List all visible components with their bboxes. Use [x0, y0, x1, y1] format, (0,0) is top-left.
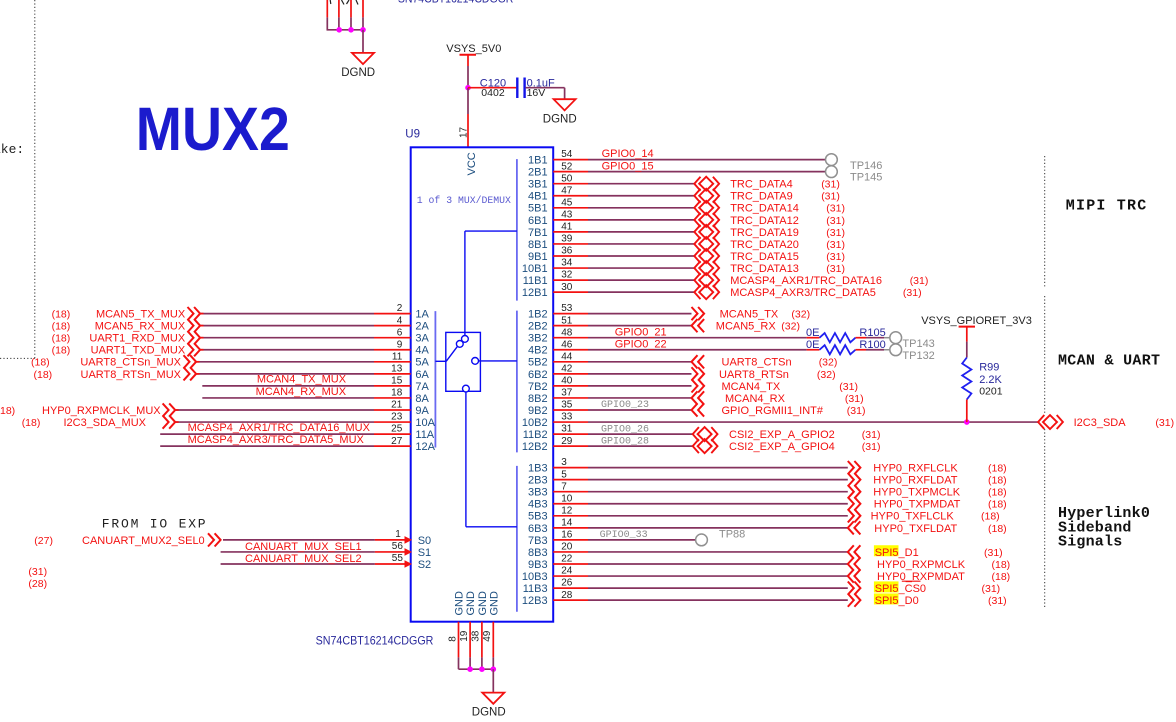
wire TRC_DATA13 — [588, 267, 694, 269]
svg-text:(18): (18) — [988, 499, 1007, 511]
svg-text:S0: S0 — [418, 535, 431, 547]
inner bus line B2 group — [516, 311, 518, 453]
svg-text:(18): (18) — [988, 475, 1007, 487]
svg-text:TP146: TP146 — [850, 160, 882, 172]
svg-text:9B3: 9B3 — [528, 559, 548, 571]
off-page connector MCAN4_RX — [692, 391, 705, 404]
svg-text:32: 32 — [561, 270, 573, 281]
wire MCASP4_AXR1/TRC_DATA16_MUX — [160, 433, 374, 435]
wire GND bus horizontal — [459, 668, 494, 670]
wire SPI5_CS0 — [588, 587, 848, 589]
svg-text:4B3: 4B3 — [528, 499, 548, 511]
svg-text:4A: 4A — [415, 345, 429, 357]
wire TRC_DATA20 — [588, 243, 694, 245]
wire GND pin 19 — [469, 622, 471, 658]
svg-text:2A: 2A — [415, 321, 429, 333]
off-page connector MCAN5_RX — [692, 319, 705, 332]
svg-text:UART8_RTSn_MUX: UART8_RTSn_MUX — [81, 369, 182, 381]
svg-text:GND: GND — [465, 591, 477, 616]
off-page connector MCAN5_TX — [692, 307, 705, 320]
svg-text:20: 20 — [561, 542, 573, 553]
svg-text:11A: 11A — [415, 429, 434, 441]
wire GPIO0_33 to TP88 — [588, 539, 696, 541]
off-page connector HYP0_RXFLDAT — [848, 473, 861, 486]
wire MCASP4_AXR3/TRC_DATA5 — [588, 291, 694, 293]
svg-text:(18): (18) — [34, 369, 53, 381]
svg-text:1B3: 1B3 — [528, 463, 548, 475]
off-page connector CANUART_MUX2_SEL0 — [208, 533, 221, 546]
mux switch lever — [446, 347, 457, 362]
wire top-left vertical 4 — [362, 0, 364, 17]
off-page connector HYP0_TXPMCLK — [848, 485, 861, 498]
svg-text:25: 25 — [391, 424, 403, 435]
svg-text:0201: 0201 — [979, 386, 1003, 398]
svg-text:10B2: 10B2 — [522, 417, 548, 429]
svg-text:DGND: DGND — [543, 113, 577, 125]
svg-text:18): 18) — [0, 405, 15, 417]
svg-text:56: 56 — [392, 541, 404, 552]
svg-text:7: 7 — [561, 481, 567, 492]
svg-text:42: 42 — [561, 363, 573, 374]
wire top-left vertical 2 — [338, 0, 340, 17]
svg-text:5A: 5A — [415, 357, 429, 369]
svg-text:7B1: 7B1 — [528, 227, 548, 239]
svg-text:(18): (18) — [988, 523, 1007, 535]
svg-text:(31): (31) — [821, 191, 840, 203]
svg-text:11: 11 — [392, 351, 403, 362]
wire MCAN4_TX — [588, 385, 692, 387]
pin arrow S0 — [405, 536, 413, 544]
wire UART8_CTSn_MUX — [197, 361, 375, 363]
svg-text:22: 22 — [561, 554, 573, 565]
svg-text:FROM IO EXP: FROM IO EXP — [102, 517, 208, 532]
wire UART8_RTSn — [588, 373, 692, 375]
svg-text:6B1: 6B1 — [528, 215, 548, 227]
svg-text:MCAN4_RX_MUX: MCAN4_RX_MUX — [256, 386, 347, 398]
svg-text:39: 39 — [561, 234, 573, 245]
wire stub 1A — [374, 313, 411, 315]
svg-text:I2C3_SDA: I2C3_SDA — [1074, 417, 1127, 429]
svg-text:MCAN5_TX: MCAN5_TX — [720, 309, 779, 321]
wire CANUART_MUX_SEL2 — [221, 563, 375, 565]
svg-text:8: 8 — [447, 636, 458, 642]
svg-text:(31): (31) — [826, 263, 845, 275]
svg-text:(31): (31) — [984, 547, 1003, 559]
off-page connector SPI5_D1 — [848, 545, 861, 558]
svg-text:(31): (31) — [982, 583, 1001, 595]
wire I2C3_SDA long — [588, 421, 1038, 423]
section separator dotted line Hyperlink0 — [1044, 429, 1046, 607]
svg-text:UART1_TXD_MUX: UART1_TXD_MUX — [91, 345, 186, 357]
wire HYP0_TXPMDAT — [588, 503, 848, 505]
svg-text:2B3: 2B3 — [528, 475, 548, 487]
svg-text:8A: 8A — [415, 393, 429, 405]
off-page connector HYP0_TXPMDAT — [848, 497, 861, 510]
svg-text:51: 51 — [561, 315, 573, 326]
inner bus line B1 group — [516, 159, 518, 301]
ground DGND top-left — [352, 53, 374, 64]
svg-text:24: 24 — [561, 566, 573, 577]
pin arrow S1 — [405, 548, 413, 556]
wire HYP0_TXFLDAT — [588, 527, 848, 529]
svg-text:(18): (18) — [52, 321, 71, 333]
svg-text:6B2: 6B2 — [528, 369, 548, 381]
svg-text:(32): (32) — [819, 357, 838, 369]
svg-text:5B1: 5B1 — [528, 203, 548, 215]
wire TRC_DATA4 — [588, 183, 694, 185]
svg-text:8B1: 8B1 — [528, 239, 548, 251]
off-page connector HYP0_RXPMCLK_MUX — [163, 403, 176, 416]
switch wire to B3 bus — [465, 392, 467, 527]
wire HYP0_RXPMCLK — [588, 563, 848, 565]
wire UART8_RTSn_MUX — [197, 373, 375, 375]
svg-text:45: 45 — [561, 197, 573, 208]
svg-text:1B2: 1B2 — [528, 309, 548, 321]
svg-text:UART1_RXD_MUX: UART1_RXD_MUX — [89, 333, 185, 345]
svg-text:GPIO0_26: GPIO0_26 — [601, 424, 649, 435]
svg-text:27: 27 — [391, 436, 403, 447]
svg-text:GPIO0_14: GPIO0_14 — [602, 148, 654, 160]
svg-text:GPIO0_15: GPIO0_15 — [602, 160, 654, 172]
off-page connector CSI2_EXP_A_GPIO2 — [693, 427, 718, 441]
wire HYP0_RXPMDAT — [588, 575, 848, 577]
svg-text:10A: 10A — [415, 417, 435, 429]
svg-text:(32): (32) — [817, 369, 836, 381]
wire stub 12A — [374, 445, 411, 447]
svg-text:11B2: 11B2 — [523, 429, 548, 441]
svg-text:GPIO0_33: GPIO0_33 — [600, 530, 648, 541]
off-page connector MCAN5_TX_MUX — [188, 307, 201, 320]
wire stub 4A — [374, 349, 411, 351]
svg-text:UART8_CTSn: UART8_CTSn — [722, 357, 792, 369]
ground DGND bottom — [482, 693, 504, 704]
off-page connector TRC_DATA20 — [694, 237, 719, 251]
junction dots GND bus — [467, 666, 473, 672]
svg-text:Signals: Signals — [1058, 534, 1122, 551]
switch wire to B2 bus — [479, 360, 517, 362]
wire GPIO0_15 to TP145 — [588, 171, 825, 173]
svg-text:2.2K: 2.2K — [979, 374, 1002, 386]
svg-text:TRC_DATA13: TRC_DATA13 — [730, 263, 799, 275]
svg-text:GPIO0_23: GPIO0_23 — [601, 400, 649, 411]
off-page connector UART1_TXD_MUX — [188, 343, 201, 356]
net label SPI5_D1 (31) — [874, 545, 899, 556]
wire I2C3_SDA_MUX — [176, 421, 374, 423]
svg-text:6B3: 6B3 — [528, 523, 548, 535]
svg-text:9B1: 9B1 — [528, 251, 548, 263]
svg-text:10: 10 — [561, 493, 573, 504]
svg-text:11B1: 11B1 — [523, 275, 548, 287]
svg-text:CANUART_MUX_SEL1: CANUART_MUX_SEL1 — [245, 541, 362, 553]
svg-text:19: 19 — [459, 630, 470, 642]
off-page connector I2C3_SDA — [1038, 415, 1063, 429]
svg-text:(31): (31) — [826, 239, 845, 251]
svg-text:(31): (31) — [826, 203, 845, 215]
wire TRC_DATA12 — [588, 219, 694, 221]
svg-text:(31): (31) — [862, 441, 881, 453]
svg-text:50: 50 — [561, 173, 573, 184]
svg-text:VSYS_5V0: VSYS_5V0 — [446, 43, 501, 55]
svg-text:HYP0_TXFLDAT: HYP0_TXFLDAT — [874, 523, 957, 535]
svg-text:GND: GND — [477, 591, 489, 616]
svg-text:43: 43 — [561, 209, 573, 220]
wire HYP0_RXPMCLK_MUX — [176, 409, 374, 411]
test point TP143 — [890, 332, 902, 344]
wire HYP0_RXFLDAT — [588, 479, 848, 481]
wire GND pin 8 — [458, 622, 460, 658]
svg-text:(18): (18) — [52, 333, 71, 345]
svg-text:2: 2 — [397, 303, 403, 314]
wire TRC_DATA14 — [588, 207, 694, 209]
svg-text:SN74CBT16214CDGGR: SN74CBT16214CDGGR — [398, 0, 514, 6]
svg-text:12: 12 — [561, 505, 573, 516]
svg-text:SPI5_D0: SPI5_D0 — [875, 595, 919, 607]
wire CANUART_MUX2_SEL0 — [223, 539, 375, 541]
off-page connector TRC_DATA4 — [694, 177, 719, 191]
svg-text:9A: 9A — [415, 405, 429, 417]
wire capacitor to DGND — [526, 87, 565, 89]
svg-text:0E: 0E — [806, 339, 819, 351]
svg-text:(31): (31) — [845, 393, 864, 405]
svg-text:SN74CBT16214CDGGR: SN74CBT16214CDGGR — [316, 633, 434, 647]
svg-text:30: 30 — [561, 282, 573, 293]
wire TRC_DATA15 — [588, 255, 694, 257]
svg-text:UART8_CTSn_MUX: UART8_CTSn_MUX — [80, 357, 181, 369]
sheet border dotted horizontal line — [0, 357, 35, 359]
svg-text:(31): (31) — [910, 275, 929, 287]
wire resistor R105 to TP143 — [856, 337, 867, 339]
test point TP88 — [696, 534, 708, 546]
svg-text:TRC_DATA14: TRC_DATA14 — [730, 203, 799, 215]
svg-text:TRC_DATA12: TRC_DATA12 — [730, 215, 799, 227]
svg-text:CANUART_MUX2_SEL0: CANUART_MUX2_SEL0 — [82, 535, 205, 547]
wire MCAN4_RX_MUX — [202, 397, 374, 399]
svg-text:49: 49 — [482, 630, 493, 642]
wire junction to VCC pin 17 — [467, 88, 469, 114]
wire stub 7A — [374, 385, 411, 387]
wire GPIO_RGMII1_INT# — [588, 409, 692, 411]
svg-text:26: 26 — [561, 578, 573, 589]
svg-text:SPI5_CS0: SPI5_CS0 — [875, 583, 926, 595]
svg-text:4B1: 4B1 — [528, 191, 548, 203]
wire stub 5A — [374, 361, 411, 363]
svg-text:3B2: 3B2 — [528, 333, 548, 345]
off-page connector CSI2_EXP_A_GPIO4 — [693, 439, 718, 453]
svg-text:MCAN5_TX_MUX: MCAN5_TX_MUX — [96, 309, 186, 321]
mux switch contact circles — [456, 341, 463, 348]
test point TP132 — [890, 344, 902, 356]
svg-text:(31): (31) — [826, 215, 845, 227]
svg-text:41: 41 — [561, 222, 573, 233]
wire stub 11A — [374, 433, 411, 435]
svg-text:DGND: DGND — [341, 67, 375, 79]
wire top-left vertical 1 — [326, 0, 328, 17]
wire R99 to I2C3_SDA net — [966, 400, 968, 423]
svg-text:2B2: 2B2 — [528, 321, 548, 333]
off-page connector HYP0_TXFLDAT — [848, 521, 861, 534]
svg-text:GPIO0_21: GPIO0_21 — [615, 326, 667, 338]
wire HYP0_TXFLCLK — [588, 515, 848, 517]
section separator dotted line MCAN UART — [1044, 296, 1046, 414]
svg-text:MUX2: MUX2 — [136, 95, 290, 163]
wire VSYS_GPIORET_3V3 to R99 — [966, 327, 968, 342]
svg-text:R99: R99 — [979, 361, 999, 373]
svg-text:38: 38 — [471, 630, 482, 642]
wire VSYS_5V0 down to junction — [467, 55, 469, 66]
sheet border dotted vertical line — [34, 0, 36, 359]
svg-text:1B1: 1B1 — [528, 155, 548, 167]
svg-text:MCAN4_TX: MCAN4_TX — [722, 381, 781, 393]
svg-text:TP145: TP145 — [850, 172, 882, 184]
svg-text:TRC_DATA15: TRC_DATA15 — [730, 251, 799, 263]
svg-text:I2C3_SDA_MUX: I2C3_SDA_MUX — [63, 417, 146, 429]
svg-text:MCAN4_TX_MUX: MCAN4_TX_MUX — [257, 374, 347, 386]
off-page connector HYP0_TXFLCLK — [848, 509, 861, 522]
svg-text:7B2: 7B2 — [528, 381, 548, 393]
off-page connector UART8_CTSn — [692, 355, 705, 368]
svg-text:52: 52 — [561, 161, 573, 172]
svg-text:4B2: 4B2 — [528, 345, 548, 357]
svg-text:MIPI TRC: MIPI TRC — [1066, 198, 1148, 215]
svg-text:(31): (31) — [988, 595, 1007, 607]
op IC U9 SN74CBT16214CDGGR body — [411, 147, 554, 621]
svg-text:15: 15 — [391, 376, 403, 387]
svg-text:(31): (31) — [847, 405, 866, 417]
wire junction to capacitor C120 — [468, 87, 516, 89]
svg-text:17: 17 — [458, 126, 469, 138]
svg-text:5B3: 5B3 — [528, 511, 548, 523]
svg-text:HYP0_RXFLCLK: HYP0_RXFLCLK — [873, 463, 958, 475]
junction R99 / I2C3_SDA — [964, 419, 970, 425]
wire MCASP4_AXR3/TRC_DATA5_MUX — [160, 445, 374, 447]
svg-text:(31): (31) — [821, 179, 840, 191]
svg-text:3B1: 3B1 — [528, 179, 548, 191]
svg-text:(18): (18) — [992, 559, 1011, 571]
wire GPIO0_22 to resistor R100 — [588, 349, 807, 351]
svg-text:CSI2_EXP_A_GPIO2: CSI2_EXP_A_GPIO2 — [729, 429, 835, 441]
off-page connector UART1_RXD_MUX — [188, 331, 201, 344]
svg-text:3B3: 3B3 — [528, 487, 548, 499]
svg-text:1 of 3 MUX/DEMUX: 1 of 3 MUX/DEMUX — [417, 195, 511, 206]
svg-text:23: 23 — [391, 412, 403, 423]
svg-text:37: 37 — [561, 388, 573, 399]
off-page connector SPI5_CS0 — [848, 582, 861, 595]
svg-text:16V: 16V — [527, 87, 546, 99]
svg-text:GPIO0_22: GPIO0_22 — [615, 338, 667, 350]
wire TRC_DATA19 — [588, 231, 694, 233]
svg-text:(32): (32) — [791, 309, 810, 321]
junction dots top-left — [336, 27, 342, 33]
svg-text:MCAN4_RX: MCAN4_RX — [725, 393, 786, 405]
wire SPI5_D1 — [588, 551, 848, 553]
off-page connector UART8_RTSn — [692, 367, 705, 380]
mux switch common stub from A bus — [435, 360, 445, 362]
svg-text:HYP0_TXPMCLK: HYP0_TXPMCLK — [873, 487, 960, 499]
resistor R100 0E — [820, 345, 856, 354]
svg-text:8B3: 8B3 — [528, 547, 548, 559]
svg-text:28: 28 — [561, 590, 573, 601]
ground DGND at C120 — [554, 99, 576, 110]
svg-text:31: 31 — [561, 424, 573, 435]
section separator dotted line MIPI TRC — [1044, 156, 1046, 287]
off-page connector TRC_DATA9 — [694, 189, 719, 203]
svg-text:HYP0_RXPMCLK_MUX: HYP0_RXPMCLK_MUX — [42, 405, 161, 417]
wire stub 9A — [374, 409, 411, 411]
svg-text:(31): (31) — [862, 429, 881, 441]
wire UART1_TXD_MUX — [201, 349, 375, 351]
svg-text:5B2: 5B2 — [528, 357, 548, 369]
wire MCASP4_AXR1/TRC_DATA16 — [588, 279, 694, 281]
wire resistor R100 to TP132 — [856, 349, 867, 351]
svg-text:MCAN5_RX_MUX: MCAN5_RX_MUX — [95, 321, 186, 333]
svg-text:(18): (18) — [981, 511, 1000, 523]
wire stub 6A — [374, 373, 411, 375]
svg-text:21: 21 — [391, 400, 403, 411]
wire GPIO0_21 to resistor R105 — [588, 337, 807, 339]
svg-text:48: 48 — [561, 327, 573, 338]
wire GND pin 38 — [481, 622, 483, 658]
svg-text:4: 4 — [397, 315, 403, 326]
svg-text:16: 16 — [561, 530, 573, 541]
svg-text:1A: 1A — [415, 309, 429, 321]
svg-text:(31): (31) — [826, 251, 845, 263]
wire to DGND top-left — [362, 30, 364, 53]
svg-text:TP143: TP143 — [902, 338, 934, 350]
resistor R105 0E — [820, 333, 856, 342]
wire CANUART_MUX_SEL1 — [221, 551, 375, 553]
wire HYP0_RXFLCLK — [588, 467, 848, 469]
svg-text:(31): (31) — [903, 287, 922, 299]
svg-text:(18): (18) — [22, 417, 41, 429]
off-page connector I2C3_SDA_MUX — [163, 415, 176, 428]
svg-text:36: 36 — [561, 246, 573, 257]
off-page connector SPI5_D0 — [848, 594, 861, 607]
svg-text:CANUART_MUX_SEL2: CANUART_MUX_SEL2 — [245, 553, 362, 565]
svg-text:9: 9 — [397, 339, 403, 350]
svg-text:GPIO_RGMII1_INT#: GPIO_RGMII1_INT# — [722, 405, 824, 417]
svg-text:DGND: DGND — [472, 706, 506, 718]
svg-text:TRC_DATA19: TRC_DATA19 — [730, 227, 799, 239]
wire MCAN4_RX — [588, 397, 692, 399]
svg-text:CSI2_EXP_A_GPIO4: CSI2_EXP_A_GPIO4 — [729, 441, 835, 453]
junction VSYS_5V0 / C120 — [465, 85, 471, 91]
svg-text:(18): (18) — [52, 345, 71, 357]
svg-text:SPI5_D1: SPI5_D1 — [875, 547, 919, 559]
test point TP146 — [826, 154, 838, 166]
svg-text:HYP0_RXFLDAT: HYP0_RXFLDAT — [873, 475, 957, 487]
svg-text:MCASP4_AXR1/TRC_DATA16: MCASP4_AXR1/TRC_DATA16 — [730, 275, 882, 287]
wire MCAN5_RX_MUX — [201, 325, 375, 327]
svg-text:7B3: 7B3 — [528, 535, 548, 547]
off-page connector TRC_DATA14 — [694, 201, 719, 215]
svg-text:U9: U9 — [405, 129, 420, 141]
svg-text:HYP0_TXPMDAT: HYP0_TXPMDAT — [874, 499, 961, 511]
svg-text:47: 47 — [561, 185, 573, 196]
off-page connector MCAN5_RX_MUX — [188, 319, 201, 332]
off-page connector TRC_DATA15 — [694, 249, 719, 263]
wire GND bus to DGND — [492, 669, 494, 692]
svg-text:12A: 12A — [415, 441, 435, 453]
svg-text:S2: S2 — [418, 559, 431, 571]
svg-text:VCC: VCC — [466, 152, 478, 175]
svg-text:MCASP4_AXR3/TRC_DATA5_MUX: MCASP4_AXR3/TRC_DATA5_MUX — [188, 434, 365, 446]
wire MCAN4_TX_MUX — [202, 385, 374, 387]
svg-text:S1: S1 — [418, 547, 431, 559]
wire MCAN5_RX — [588, 325, 692, 327]
wire CSI2_EXP_A_GPIO2 — [588, 433, 693, 435]
svg-text:11B3: 11B3 — [523, 583, 548, 595]
svg-text:29: 29 — [561, 436, 573, 447]
